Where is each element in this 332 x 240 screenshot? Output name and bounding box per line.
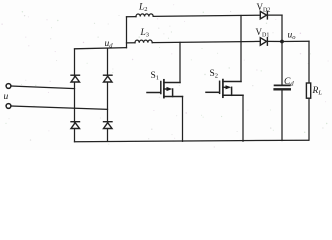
diode VD1 — [260, 38, 267, 46]
wire: left bridge column — [74, 49, 76, 142]
diode bridge top-left — [71, 75, 80, 82]
svg-text:VD2: VD2 — [257, 2, 271, 14]
wire: L2 to VD2 — [153, 15, 260, 16]
diode bridge top-right — [104, 75, 113, 82]
svg-text:S1: S1 — [151, 71, 160, 82]
wire: VD2 cathode to output corner — [267, 14, 282, 16]
terminal upper — [6, 84, 11, 89]
diode VD2 — [260, 11, 267, 19]
terminal lower — [6, 104, 11, 109]
inductor L3 — [127, 40, 153, 43]
wire: VD1 cathode to output node — [267, 40, 282, 42]
svg-text:L3: L3 — [140, 28, 150, 39]
wire: L3 to VD1 — [152, 41, 260, 42]
wire: lower AC input to right bridge leg — [11, 106, 108, 109]
wire: ud top rail — [75, 48, 127, 49]
wire: upper AC input — [11, 86, 75, 89]
wire: bottom return rail — [75, 140, 309, 142]
svg-text:RL: RL — [312, 86, 323, 97]
wire: vertical from ud rail up to L2 branch — [126, 17, 128, 48]
svg-text:ud: ud — [105, 39, 114, 50]
svg-text:u: u — [4, 92, 9, 102]
node uo junction dot — [280, 40, 284, 44]
transistor S1 — [147, 80, 183, 98]
transistor S2 — [206, 80, 243, 98]
wire: S2 drain up to L2 wire (crosses L3 rail) — [240, 16, 242, 82]
diode bridge bottom-left — [71, 122, 80, 129]
wire: S1 source down to bottom rail — [182, 97, 184, 142]
wire: node to load corner — [282, 40, 309, 42]
svg-text:Cd: Cd — [284, 77, 294, 88]
wire: VD2 output drop to node — [281, 15, 283, 41]
svg-text:L2: L2 — [138, 3, 148, 14]
wire: S2 source down to bottom rail — [242, 95, 244, 141]
svg-text:S2: S2 — [210, 69, 219, 80]
svg-text:VD1: VD1 — [256, 27, 270, 39]
resistor RL — [306, 41, 310, 140]
diode bridge bottom-right — [104, 122, 113, 129]
inductor L2 — [127, 14, 154, 17]
wire: right bridge column — [107, 48, 109, 141]
wire: S1 drain up to L3 rail — [179, 42, 181, 82]
capacitor Cd — [275, 42, 290, 141]
svg-text:uo: uo — [288, 31, 297, 42]
